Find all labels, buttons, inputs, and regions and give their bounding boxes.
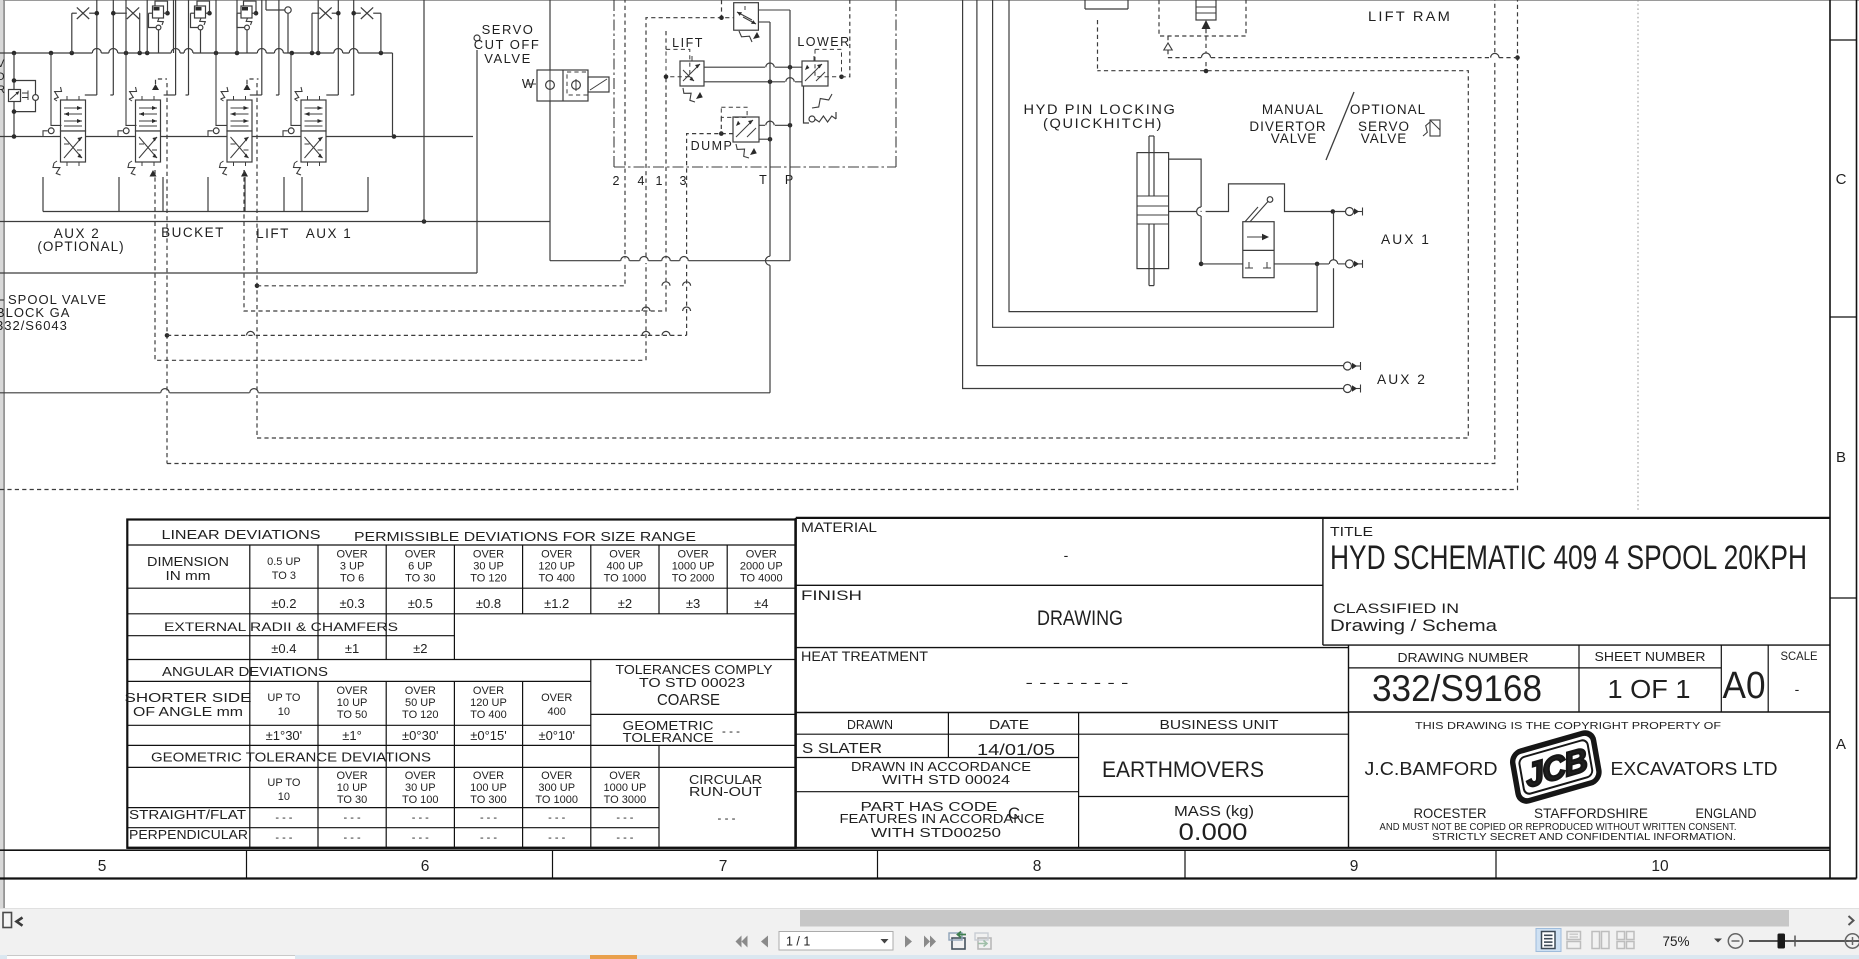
svg-text:DRAWN: DRAWN xyxy=(847,717,893,732)
pilot dashed drop LIFT right xyxy=(256,83,258,438)
svg-text:±1°: ±1° xyxy=(342,728,362,743)
svg-text:TO 2000: TO 2000 xyxy=(672,573,715,585)
svg-text:OVER: OVER xyxy=(678,549,709,561)
svg-text:STRICTLY SECRET AND CONFIDENTI: STRICTLY SECRET AND CONFIDENTIAL INFORMA… xyxy=(1432,831,1736,843)
quickhitch pilot dashed drop xyxy=(1097,20,1099,71)
svg-text:TO 6: TO 6 xyxy=(340,573,364,585)
svg-text:±2: ±2 xyxy=(413,641,427,656)
svg-text:A: A xyxy=(1836,736,1846,753)
svg-text:BUSINESS UNIT: BUSINESS UNIT xyxy=(1160,717,1279,732)
svg-text:THIS DRAWING IS THE COPYRIGHT: THIS DRAWING IS THE COPYRIGHT PROPERTY O… xyxy=(1415,720,1721,732)
port symbol AUX1 B xyxy=(1346,260,1354,268)
svg-text:OVER: OVER xyxy=(541,692,572,704)
svg-text:120 UP: 120 UP xyxy=(538,561,575,573)
svg-text:O: O xyxy=(0,71,5,83)
svg-text:TO 3000: TO 3000 xyxy=(604,794,647,806)
zoom out button xyxy=(1728,934,1742,948)
svg-text:LIFT RAM: LIFT RAM xyxy=(1368,9,1452,24)
lift ram check valve dashed box xyxy=(1159,0,1246,36)
svg-text:TO 400: TO 400 xyxy=(538,573,575,585)
tank return bus T xyxy=(0,136,473,138)
svg-text:LINEAR DEVIATIONS: LINEAR DEVIATIONS xyxy=(162,528,321,542)
prev-view icon xyxy=(952,938,965,949)
bumps on pilot crossings xyxy=(247,331,255,335)
svg-text:OVER: OVER xyxy=(473,549,504,561)
svg-text:3: 3 xyxy=(680,174,687,188)
svg-text:- - -: - - - xyxy=(718,813,736,825)
zone tick C/B xyxy=(1830,316,1857,318)
zone number row xyxy=(0,849,1830,851)
AUX2 feed wire lower xyxy=(963,0,1343,389)
divertor feed wire with step xyxy=(1169,211,1197,213)
svg-text:HEAT TREATMENT: HEAT TREATMENT xyxy=(801,648,928,664)
port symbol AUX2 A xyxy=(1344,362,1352,370)
svg-text:WITH STD 00024: WITH STD 00024 xyxy=(882,773,1010,787)
tank return long wire xyxy=(0,392,770,394)
svg-text:10: 10 xyxy=(278,706,290,718)
nav first-page button xyxy=(736,936,742,948)
svg-text:3 UP: 3 UP xyxy=(340,561,364,573)
pilot line 3 run xyxy=(167,334,687,336)
port symbol AUX2 B xyxy=(1344,385,1352,393)
svg-text:STRAIGHT/FLAT: STRAIGHT/FLAT xyxy=(129,807,246,822)
servo valve drop to P gallery xyxy=(549,101,551,261)
valve block outer box xyxy=(476,50,478,273)
svg-text:TOLERANCES COMPLY: TOLERANCES COMPLY xyxy=(616,663,774,677)
svg-text:1: 1 xyxy=(656,174,663,188)
svg-text:0.000: 0.000 xyxy=(1179,819,1248,846)
svg-text:±1°30': ±1°30' xyxy=(266,728,303,743)
svg-text:SHORTER SIDE: SHORTER SIDE xyxy=(125,691,252,705)
left page-edge shading xyxy=(0,0,1859,1)
svg-text:CLASSIFIED IN: CLASSIFIED IN xyxy=(1333,600,1459,616)
divider slash xyxy=(1326,92,1354,160)
svg-text:DRAWING: DRAWING xyxy=(1037,607,1123,630)
svg-text:- - -: - - - xyxy=(344,832,361,844)
nav prev button xyxy=(761,936,768,948)
lift ram top piping xyxy=(1084,0,1086,9)
svg-text:2: 2 xyxy=(613,174,620,188)
inlet relief assembly (left) xyxy=(13,53,15,136)
shut-off cross symbol X1 xyxy=(77,7,89,19)
svg-text:Drawing / Schema: Drawing / Schema xyxy=(1330,616,1498,635)
service gallery verticals below valves xyxy=(42,177,44,212)
svg-text:LIFT: LIFT xyxy=(672,36,704,50)
svg-text:C: C xyxy=(1836,171,1847,188)
svg-text:- - -: - - - xyxy=(480,832,497,844)
svg-text:±0°30': ±0°30' xyxy=(402,728,439,743)
servo cut off valve body xyxy=(549,0,551,70)
cylinder port wire upper xyxy=(1169,159,1202,207)
svg-text:DRAWING NUMBER: DRAWING NUMBER xyxy=(1398,651,1529,665)
svg-text:CUT OFF: CUT OFF xyxy=(474,37,541,52)
svg-text:FINISH: FINISH xyxy=(801,587,862,603)
LIFT pilot cap dashed xyxy=(666,49,690,76)
cylinder rod xyxy=(1148,136,1150,196)
svg-text:TO 120: TO 120 xyxy=(402,709,439,721)
svg-text:120 UP: 120 UP xyxy=(470,697,507,709)
svg-text:75%: 75% xyxy=(1662,934,1689,949)
svg-text:30 UP: 30 UP xyxy=(473,561,504,573)
svg-text:1 OF 1: 1 OF 1 xyxy=(1608,674,1691,704)
svg-text:50 UP: 50 UP xyxy=(405,697,436,709)
sidebar collapse chevron xyxy=(17,918,23,926)
horizontal scrollbar thumb xyxy=(800,910,1789,927)
AUX1 feed wire B xyxy=(993,0,1334,327)
svg-text:OVER: OVER xyxy=(609,770,640,782)
svg-text:OVER: OVER xyxy=(609,549,640,561)
svg-text:LIFT: LIFT xyxy=(256,226,290,241)
svg-text:- - -: - - - xyxy=(480,812,497,824)
svg-text:±0°15': ±0°15' xyxy=(470,728,507,743)
LOWER pilot cap dashed xyxy=(815,49,842,76)
svg-text:UP TO: UP TO xyxy=(267,777,300,789)
pilot control dash-dot enclosure xyxy=(613,0,615,167)
svg-text:AUX 2: AUX 2 xyxy=(1377,372,1427,387)
HEAT TREATMENT cell xyxy=(796,712,1349,714)
svg-text:IN mm: IN mm xyxy=(166,568,211,583)
svg-text:BUCKET: BUCKET xyxy=(161,225,225,240)
svg-text:6: 6 xyxy=(421,858,430,875)
svg-text:400: 400 xyxy=(548,706,566,718)
sheet frame right borders xyxy=(1829,0,1831,879)
svg-text:OVER: OVER xyxy=(541,770,572,782)
wire LIFT-LOWER upper (P) xyxy=(704,66,802,68)
svg-text:-: - xyxy=(1064,547,1069,563)
svg-text:TO STD 00023: TO STD 00023 xyxy=(639,676,745,690)
relief valve RV1 (top) xyxy=(153,6,164,18)
svg-text:±0°10': ±0°10' xyxy=(538,728,575,743)
svg-text:- - -: - - - xyxy=(722,726,740,738)
svg-text:EXCAVATORS LTD: EXCAVATORS LTD xyxy=(1611,759,1778,779)
title block outer borders xyxy=(795,518,797,848)
svg-text:TO 1000: TO 1000 xyxy=(604,573,647,585)
svg-text:(QUICKHITCH): (QUICKHITCH) xyxy=(1043,116,1163,131)
svg-text:±0.8: ±0.8 xyxy=(476,596,501,611)
svg-text:- - - - - - - -: - - - - - - - - xyxy=(1026,674,1130,690)
port symbol AUX1 A xyxy=(1346,208,1354,216)
reducing valve outlet wires to T and P xyxy=(758,9,790,11)
page number box xyxy=(779,932,893,951)
label SPOOL VALVE BLOCK GA 332/S6043 xyxy=(0,299,4,301)
svg-text:T: T xyxy=(759,173,767,187)
svg-text:±2: ±2 xyxy=(618,596,632,611)
pilot dashed drop BUCKET left xyxy=(155,170,644,360)
svg-text:1000 UP: 1000 UP xyxy=(672,561,715,573)
pressure reducing valve above pilot box xyxy=(734,3,759,31)
svg-text:OVER: OVER xyxy=(473,685,504,697)
page layout icon two-up scrolling xyxy=(1617,932,1625,940)
scroll right arrow xyxy=(1849,916,1854,925)
svg-text:±1: ±1 xyxy=(345,641,359,656)
P supply to servo valve xyxy=(550,260,790,262)
page layout icon two-up xyxy=(1592,932,1600,949)
svg-text:- - -: - - - xyxy=(412,832,429,844)
spool valve LIFT section xyxy=(227,100,252,131)
svg-text:P: P xyxy=(785,173,793,187)
svg-text:- - -: - - - xyxy=(275,812,292,824)
pilot supply run to lift ram circuit xyxy=(167,0,1495,464)
svg-text:TO 400: TO 400 xyxy=(470,709,507,721)
svg-text:-: - xyxy=(1795,681,1800,697)
svg-text:MANUAL: MANUAL xyxy=(1262,102,1324,117)
svg-text:TO 30: TO 30 xyxy=(337,794,367,806)
svg-text:PERMISSIBLE DEVIATIONS FOR SIZ: PERMISSIBLE DEVIATIONS FOR SIZE RANGE xyxy=(354,530,696,544)
svg-text:TO 4000: TO 4000 xyxy=(740,573,783,585)
svg-text:WITH STD00250: WITH STD00250 xyxy=(871,825,1001,840)
outer pilot drain run xyxy=(0,0,1518,490)
svg-text:±4: ±4 xyxy=(754,596,768,611)
lift ram lock valve xyxy=(1196,0,1216,20)
pressure bus P (top) xyxy=(0,52,393,54)
svg-text:TOLERANCE: TOLERANCE xyxy=(623,731,714,745)
manual divertor valve body xyxy=(1243,222,1274,278)
svg-text:OVER: OVER xyxy=(405,685,436,697)
FINISH cell xyxy=(796,647,1349,649)
pilot port circles on T bus xyxy=(42,128,53,136)
svg-text:EXTERNAL RADII & CHAMFERS: EXTERNAL RADII & CHAMFERS xyxy=(164,620,398,634)
svg-text:332/S6043: 332/S6043 xyxy=(0,318,68,333)
pilot dashed drop LIFT left xyxy=(244,77,666,311)
svg-text:LOWER: LOWER xyxy=(797,35,850,49)
pilot dashed run under lift ram xyxy=(1168,57,1201,59)
svg-text:300 UP: 300 UP xyxy=(538,782,575,794)
drain triangle xyxy=(1164,43,1172,50)
svg-text:10: 10 xyxy=(1651,858,1669,875)
svg-text:2000 UP: 2000 UP xyxy=(740,561,783,573)
quickhitch cylinder xyxy=(1137,153,1169,269)
svg-text:- - -: - - - xyxy=(412,812,429,824)
supply drops bypassing bus to valves xyxy=(96,0,98,95)
svg-text:GEOMETRIC TOLERANCE DEVIATIONS: GEOMETRIC TOLERANCE DEVIATIONS xyxy=(151,751,431,765)
pilot return run to quickhitch xyxy=(257,71,1468,438)
svg-text:- - -: - - - xyxy=(548,812,565,824)
svg-text:4: 4 xyxy=(638,174,645,188)
svg-text:VALVE: VALVE xyxy=(1361,131,1408,146)
svg-text:MASS (kg): MASS (kg) xyxy=(1174,803,1254,820)
optional servo valve symbol xyxy=(1430,120,1440,136)
viewer bottom bars xyxy=(0,908,1859,955)
svg-text:TO 1000: TO 1000 xyxy=(535,794,578,806)
svg-text:V: V xyxy=(0,58,5,70)
wire DUMP upper to P xyxy=(759,124,790,126)
svg-text:OVER: OVER xyxy=(337,549,368,561)
svg-text:OF ANGLE mm: OF ANGLE mm xyxy=(133,705,243,719)
svg-text:5: 5 xyxy=(98,858,107,875)
sidebar page icon xyxy=(3,913,12,928)
spool valve BUCKET section xyxy=(136,100,161,131)
DRAWN DATE BUSINESS UNIT cells xyxy=(796,733,1349,735)
fold mark dotted line xyxy=(1637,0,1639,512)
stub wires rising from bus to top edge xyxy=(125,0,127,53)
svg-text:- - -: - - - xyxy=(616,812,633,824)
svg-text:RUN-OUT: RUN-OUT xyxy=(689,785,762,799)
zone tick C top xyxy=(1830,39,1857,41)
svg-text:DUMP: DUMP xyxy=(691,139,734,153)
nav last button xyxy=(924,936,930,948)
zoom in button xyxy=(1845,934,1859,948)
svg-text:A0: A0 xyxy=(1723,665,1766,707)
table column rules xyxy=(249,545,251,848)
svg-text:ANGULAR DEVIATIONS: ANGULAR DEVIATIONS xyxy=(162,665,328,679)
svg-text:9: 9 xyxy=(1350,858,1359,875)
collector line to servo valve xyxy=(0,221,550,223)
vertical to collector xyxy=(423,0,425,222)
svg-text:J.C.BAMFORD: J.C.BAMFORD xyxy=(1365,759,1498,779)
pilot line 2 run xyxy=(257,0,625,286)
svg-text:MATERIAL: MATERIAL xyxy=(801,519,877,535)
svg-text:AUX 1: AUX 1 xyxy=(1381,232,1431,247)
page layout icon scrolling xyxy=(1567,932,1581,940)
JCB logo xyxy=(1511,731,1600,804)
svg-text:±0.4: ±0.4 xyxy=(271,641,296,656)
svg-text:TO 120: TO 120 xyxy=(470,573,507,585)
svg-text:SHEET NUMBER: SHEET NUMBER xyxy=(1595,650,1706,664)
MATERIAL cell xyxy=(796,584,1323,586)
svg-text:- - -: - - - xyxy=(275,832,292,844)
svg-text:B: B xyxy=(1836,449,1846,466)
svg-text:±0.2: ±0.2 xyxy=(271,596,296,611)
svg-text:COARSE: COARSE xyxy=(657,692,720,709)
svg-text:±1.2: ±1.2 xyxy=(544,596,569,611)
feed from bus top right corner xyxy=(392,53,394,137)
svg-text:- - -: - - - xyxy=(344,812,361,824)
AUX1 feed wire A xyxy=(1009,0,1317,312)
svg-text:FEATURES IN ACCORDANCE: FEATURES IN ACCORDANCE xyxy=(840,811,1045,826)
svg-text:DRAWN IN ACCORDANCE: DRAWN IN ACCORDANCE xyxy=(851,760,1031,774)
svg-text:10 UP: 10 UP xyxy=(337,782,368,794)
pilot line 4 vertical xyxy=(646,18,734,361)
svg-text:±0.3: ±0.3 xyxy=(339,596,364,611)
servo valve solenoid xyxy=(588,77,609,92)
svg-text:ROCESTER: ROCESTER xyxy=(1414,805,1487,821)
gauge circle (top) xyxy=(285,7,291,13)
bottom taskbar strip xyxy=(0,955,1859,959)
DUMP pilot cap dashed xyxy=(721,107,747,117)
divertor lower wire to AUX1 xyxy=(1201,263,1243,265)
svg-text:- - -: - - - xyxy=(616,832,633,844)
svg-text:SCALE: SCALE xyxy=(1781,651,1818,663)
svg-text:14/01/05: 14/01/05 xyxy=(977,742,1055,759)
zone tick B/A xyxy=(1830,597,1857,599)
svg-text:OVER: OVER xyxy=(541,549,572,561)
spool valve AUX1 section xyxy=(301,100,326,131)
next-view icon xyxy=(978,938,991,949)
TITLE cell xyxy=(1322,518,1324,645)
svg-text:OVER: OVER xyxy=(405,549,436,561)
svg-text:OVER: OVER xyxy=(337,770,368,782)
svg-text:R: R xyxy=(0,84,5,96)
pressure line P vertical xyxy=(789,10,791,261)
svg-text:PERPENDICULAR: PERPENDICULAR xyxy=(129,827,248,842)
nav next button xyxy=(905,936,912,948)
svg-text:TO 30: TO 30 xyxy=(405,573,435,585)
DRAWING NUMBER row xyxy=(1348,645,1350,848)
AUX2 feed wire upper xyxy=(977,0,1343,366)
wire DUMP lower to T xyxy=(759,138,770,140)
svg-text:OVER: OVER xyxy=(473,770,504,782)
svg-text:10: 10 xyxy=(278,791,290,803)
svg-text:HYD SCHEMATIC 409 4 SPOOL 20KP: HYD SCHEMATIC 409 4 SPOOL 20KPH xyxy=(1330,539,1807,577)
svg-text:OVER: OVER xyxy=(746,549,777,561)
svg-text:OVER: OVER xyxy=(405,770,436,782)
svg-text:HYD PIN LOCKING: HYD PIN LOCKING xyxy=(1024,102,1177,117)
shut-off cross symbol X3 xyxy=(319,7,331,19)
svg-text:VALVE: VALVE xyxy=(484,51,531,66)
svg-text:1 / 1: 1 / 1 xyxy=(786,935,810,949)
svg-text:±3: ±3 xyxy=(686,596,700,611)
svg-text:100 UP: 100 UP xyxy=(470,782,507,794)
svg-text:1000 UP: 1000 UP xyxy=(603,782,646,794)
svg-text:TITLE: TITLE xyxy=(1330,524,1373,539)
svg-text:TO 300: TO 300 xyxy=(470,794,507,806)
svg-text:6 UP: 6 UP xyxy=(408,561,432,573)
svg-text:DATE: DATE xyxy=(989,717,1029,732)
title block bottom border xyxy=(796,847,1830,849)
svg-text:OPTIONAL: OPTIONAL xyxy=(1350,102,1426,117)
svg-text:EARTHMOVERS: EARTHMOVERS xyxy=(1102,757,1264,782)
svg-text:S SLATER: S SLATER xyxy=(802,740,882,757)
svg-text:VALVE: VALVE xyxy=(1271,131,1318,146)
svg-text:(OPTIONAL): (OPTIONAL) xyxy=(37,239,124,254)
spool valve AUX2 section xyxy=(61,100,86,131)
svg-text:- - -: - - - xyxy=(548,832,565,844)
svg-text:SERVO: SERVO xyxy=(482,22,535,37)
svg-text:TO 100: TO 100 xyxy=(402,794,439,806)
svg-text:332/S9168: 332/S9168 xyxy=(1372,668,1542,709)
svg-text:8: 8 xyxy=(1033,858,1042,875)
zoom slider xyxy=(1749,940,1859,942)
svg-text:AUX 1: AUX 1 xyxy=(306,226,353,241)
svg-text:ENGLAND: ENGLAND xyxy=(1696,805,1757,821)
svg-text:OVER: OVER xyxy=(337,685,368,697)
pilot dashed drop BUCKET right xyxy=(166,83,168,464)
page layout icon single (active) xyxy=(1536,929,1561,952)
divertor manual lever xyxy=(1250,202,1268,222)
svg-text:400 UP: 400 UP xyxy=(607,561,644,573)
tank line T vertical xyxy=(769,22,771,256)
svg-text:0.5 UP: 0.5 UP xyxy=(267,556,301,568)
svg-text:DIMENSION: DIMENSION xyxy=(147,554,229,569)
svg-text:TO 50: TO 50 xyxy=(337,709,367,721)
wire LIFT-LOWER lower (T) xyxy=(704,81,802,83)
svg-text:UP TO: UP TO xyxy=(267,692,300,704)
relief valve RV2 (top) xyxy=(195,6,206,18)
svg-text:7: 7 xyxy=(719,858,728,875)
relief valve RV3 (top) xyxy=(241,6,252,18)
tolerance table frame xyxy=(127,520,795,848)
LOWER drain bracket and check xyxy=(804,86,810,123)
shut-off cross symbol X4 xyxy=(361,7,373,19)
svg-text:STAFFORDSHIRE: STAFFORDSHIRE xyxy=(1534,805,1648,821)
svg-text:30 UP: 30 UP xyxy=(405,782,436,794)
svg-text:TO 3: TO 3 xyxy=(272,570,296,582)
shut-off cross symbol X2 xyxy=(127,7,139,19)
svg-text:10 UP: 10 UP xyxy=(337,697,368,709)
svg-text:±0.5: ±0.5 xyxy=(408,596,433,611)
